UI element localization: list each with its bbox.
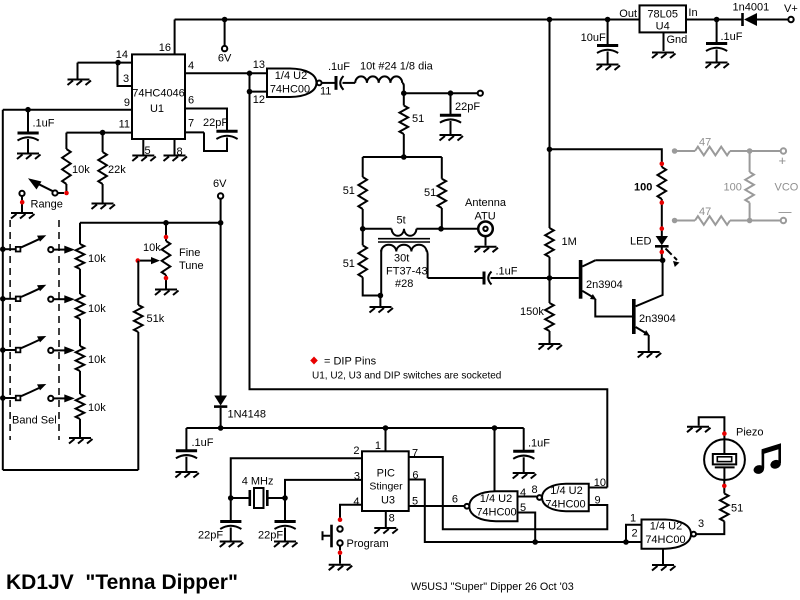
svg-text:10uF: 10uF xyxy=(581,32,606,44)
transformer secondary 30t winding xyxy=(381,245,426,252)
svg-text:74HC4046: 74HC4046 xyxy=(132,88,185,100)
node DIP red 100 bottom xyxy=(660,200,665,205)
capacitor .1uF (regulator input) xyxy=(706,20,743,62)
svg-text:KD1JV "Tenna Dipper": KD1JV "Tenna Dipper" xyxy=(6,571,238,594)
wire diode to V+ terminal xyxy=(757,19,789,21)
wire left loop vertical xyxy=(2,110,4,470)
svg-text:47: 47 xyxy=(699,137,711,149)
svg-text:—: — xyxy=(779,204,792,219)
svg-text:10t #24 1/8 dia: 10t #24 1/8 dia xyxy=(360,61,434,73)
ground ATU xyxy=(475,247,499,253)
switch band row 4 xyxy=(0,384,75,402)
node junction bridge right xyxy=(438,226,444,232)
svg-text:1/4 U2: 1/4 U2 xyxy=(275,70,307,82)
switch Range xyxy=(19,178,64,212)
svg-text:Gnd: Gnd xyxy=(667,34,688,46)
ground reset cap left xyxy=(175,472,199,478)
svg-text:10k: 10k xyxy=(88,354,106,366)
svg-text:74HC00: 74HC00 xyxy=(645,534,685,546)
svg-text:.1uF: .1uF xyxy=(328,61,350,73)
svg-text:Piezo: Piezo xyxy=(736,427,764,439)
svg-text:9: 9 xyxy=(124,97,130,109)
svg-text:51: 51 xyxy=(731,503,743,515)
wire VCO drive horizontal xyxy=(550,149,662,167)
node junction U2b input rail xyxy=(623,539,629,545)
node junction 10uF on rail xyxy=(605,17,611,23)
node DIP pin red (range ground) xyxy=(20,200,25,205)
wire inductor down xyxy=(402,83,404,93)
svg-text:14: 14 xyxy=(116,49,128,61)
ground U1 pin 8 xyxy=(164,156,188,162)
wire U1 pin 9 xyxy=(3,109,132,111)
svg-text:10k: 10k xyxy=(143,242,161,254)
node junction crystal right xyxy=(282,495,288,501)
wire U2a pin 12 xyxy=(250,91,268,93)
node 6V terminal xyxy=(222,46,227,51)
svg-text:FT37-43: FT37-43 xyxy=(386,266,428,278)
node junction VCO branch xyxy=(547,147,553,153)
svg-text:In: In xyxy=(688,7,697,19)
svg-text:= DIP Pins: = DIP Pins xyxy=(324,356,377,368)
resistor ladder 10k 4 xyxy=(76,371,85,437)
ground PIC pin 8 xyxy=(374,528,398,534)
node DIP red LED top xyxy=(660,226,665,231)
wire secondary ground stem xyxy=(379,296,381,307)
diode LED xyxy=(630,236,669,261)
piezo element xyxy=(704,439,745,480)
ground piezo xyxy=(687,427,711,433)
wire U2b output xyxy=(696,521,724,534)
transformer core xyxy=(378,239,430,242)
svg-text:U3: U3 xyxy=(381,495,395,507)
resistor 150k xyxy=(545,278,554,343)
svg-text:10k: 10k xyxy=(88,253,106,265)
svg-text:51: 51 xyxy=(412,113,424,125)
ground range switch xyxy=(11,213,35,219)
node junction secondary/51 xyxy=(378,293,384,299)
node junction LED/collector xyxy=(660,258,666,264)
svg-text:51: 51 xyxy=(343,258,355,270)
svg-text:47: 47 xyxy=(699,206,711,218)
wire PIC pin 7 route xyxy=(409,457,608,529)
svg-text:9: 9 xyxy=(595,495,601,507)
wire U2c spare input drop xyxy=(494,428,496,491)
node DIP red piezo bottom xyxy=(722,484,727,489)
ground U4 xyxy=(652,53,676,59)
wire top V+ rail xyxy=(175,19,640,21)
svg-text:4 MHz: 4 MHz xyxy=(242,476,274,488)
wire fine wiper xyxy=(140,260,152,262)
svg-text:22k: 22k xyxy=(108,164,126,176)
resistor 51 (bottom left) xyxy=(358,229,380,296)
IC U1 74HC4046 xyxy=(132,54,185,139)
svg-text:10k: 10k xyxy=(72,164,90,176)
wire U1 pin 14 xyxy=(78,62,133,64)
resistor 47 (top, external) xyxy=(695,147,730,156)
svg-text:.1uF: .1uF xyxy=(721,31,743,43)
svg-text:2: 2 xyxy=(632,528,638,540)
wire left loop bottom xyxy=(3,469,139,471)
resistor ladder 10k 3 xyxy=(76,319,85,371)
wire PIC pin 6 route (bottom rail) xyxy=(409,480,642,543)
wire pin14 ground stem xyxy=(77,63,79,79)
resistor 51k xyxy=(134,261,143,470)
svg-text:11: 11 xyxy=(119,119,130,131)
wire U1 pin 4 to U2a pin 13 xyxy=(185,72,267,74)
svg-text:Program: Program xyxy=(347,538,389,550)
wire U1 pin 11 xyxy=(66,132,132,134)
svg-text:.1uF: .1uF xyxy=(33,118,55,130)
wire reset rail y428 xyxy=(186,427,523,429)
node junction inductor/51 xyxy=(401,90,407,96)
ground VDD cap xyxy=(513,473,537,479)
capacitor .1uF (osc out) xyxy=(328,61,350,90)
node junction .1uF tap xyxy=(25,107,31,113)
regulator U4 78L05 xyxy=(640,5,687,32)
node junction diode bottom xyxy=(218,425,224,431)
ground 22k xyxy=(92,204,116,210)
wire U1 pin 5 stub xyxy=(142,139,144,155)
svg-text:10k: 10k xyxy=(88,303,106,315)
svg-text:51: 51 xyxy=(424,187,436,199)
wire primary row xyxy=(363,228,478,230)
svg-text:78L05: 78L05 xyxy=(647,9,678,21)
wire U1 pin 8 stub xyxy=(174,139,176,155)
ground .1uF pin9 xyxy=(17,154,41,160)
wire piezo top bracket xyxy=(699,417,725,439)
wire 6V to diode vertical xyxy=(220,223,222,396)
resistor 51 (piezo) xyxy=(720,494,729,522)
wire U4 ground stub xyxy=(663,32,665,51)
svg-text:Antenna: Antenna xyxy=(465,197,507,209)
ground 22pF output xyxy=(440,135,464,141)
capacitor .1uF (detector coupling) xyxy=(428,266,579,285)
resistor ladder 10k 2 xyxy=(76,269,85,319)
wire to 22pF terminal xyxy=(404,92,478,94)
svg-text:6: 6 xyxy=(188,95,194,107)
node gray junction bottom xyxy=(747,218,753,224)
ground pin 14 xyxy=(68,80,92,86)
svg-text:4: 4 xyxy=(188,60,194,72)
legend DIP pins xyxy=(310,356,376,368)
ground U1 pin 5 xyxy=(132,156,156,162)
resistor 22k xyxy=(98,133,107,203)
node junction pin12 xyxy=(247,89,253,95)
ground 10uF xyxy=(597,65,621,71)
ground 150k xyxy=(539,344,563,350)
wire PIC pin 5 to U2c output xyxy=(409,505,465,507)
op U2b NAND xyxy=(642,520,696,549)
node DIP red fine bottom xyxy=(164,276,169,281)
svg-text:PIC: PIC xyxy=(377,468,395,480)
diode 1n4001 xyxy=(733,2,770,27)
resistor 51 (bridge right) xyxy=(438,157,447,229)
resistor 10k (range) xyxy=(62,149,71,184)
svg-text:22pF: 22pF xyxy=(203,117,228,129)
node junction 22k tap xyxy=(100,130,106,136)
svg-text:.1uF: .1uF xyxy=(192,437,214,449)
capacitor .1uF (pin 9) xyxy=(18,110,55,153)
svg-text:2n3904: 2n3904 xyxy=(586,279,623,291)
crystal 4 MHz xyxy=(231,476,285,509)
capacitor 22pF (output) xyxy=(440,93,480,134)
node DIP red piezo top xyxy=(722,431,727,436)
wire PIC pin 4 xyxy=(340,505,362,518)
wire 6V to ladder rail xyxy=(80,222,221,224)
svg-text:7: 7 xyxy=(188,118,194,130)
capacitor .1uF (VDD right) xyxy=(513,428,550,472)
svg-text:16: 16 xyxy=(159,42,171,54)
node junction pin14/pin3 xyxy=(115,60,121,66)
wire 10k top lead xyxy=(65,133,67,149)
ground secondary xyxy=(370,307,394,313)
node DIP pin red (10k bottom) xyxy=(64,191,69,196)
ground U2b xyxy=(652,565,676,571)
node junction 22pF tap xyxy=(448,90,454,96)
svg-text:1n4001: 1n4001 xyxy=(733,2,770,14)
node junction bridge left xyxy=(360,226,366,232)
node DIP red 100 top xyxy=(660,162,665,167)
svg-text:4: 4 xyxy=(353,496,359,508)
svg-text:150k: 150k xyxy=(520,306,544,318)
wire 6V stub xyxy=(224,20,226,46)
wire secondary right lead xyxy=(427,250,428,278)
wire dashed switch gang left xyxy=(9,220,11,440)
svg-text:1/4 U2: 1/4 U2 xyxy=(480,493,512,505)
svg-text:51k: 51k xyxy=(147,313,165,325)
ground ladder xyxy=(69,438,93,444)
wire PIC pin 3 xyxy=(285,480,362,498)
wire pin12 feedback route xyxy=(250,73,608,487)
node VCO - terminal xyxy=(781,218,786,223)
wire U2a output xyxy=(322,82,335,84)
node 6V terminal 2 xyxy=(218,193,223,198)
wire U2b ground stub xyxy=(662,549,664,564)
svg-text:1: 1 xyxy=(630,513,636,525)
transistor Q2 2n3904 xyxy=(632,260,676,351)
svg-text:74HC00: 74HC00 xyxy=(545,499,585,511)
connector ATU jack xyxy=(478,222,493,237)
svg-text:W5USJ "Super" Dipper 26 Oct '0: W5USJ "Super" Dipper 26 Oct '03 xyxy=(411,581,574,593)
svg-text:1N4148: 1N4148 xyxy=(228,409,267,421)
node output terminal xyxy=(478,91,483,96)
svg-text:5t: 5t xyxy=(397,215,406,227)
svg-text:74HC00: 74HC00 xyxy=(270,84,310,96)
node gray junction top xyxy=(747,148,753,154)
svg-text:6V: 6V xyxy=(218,53,232,65)
wire dashed switch gang right xyxy=(58,220,60,440)
svg-text:1/4 U2: 1/4 U2 xyxy=(650,521,682,533)
node DIP red LED bottom xyxy=(660,250,665,255)
node VCO gray terminal top-left xyxy=(672,148,678,154)
svg-text:22pF: 22pF xyxy=(258,530,283,542)
svg-text:+: + xyxy=(779,153,787,168)
resistor 51 (under inductor) xyxy=(400,93,409,157)
ground Q2 emitter xyxy=(638,352,662,358)
svg-text:Tune: Tune xyxy=(179,260,204,272)
diode 1N4148 xyxy=(214,396,266,429)
capacitor 22pF (xtal left) xyxy=(198,498,241,542)
svg-text:6V: 6V xyxy=(213,178,227,190)
wire bridge row y157 xyxy=(363,156,442,158)
wire U1 pin 6 xyxy=(185,109,227,131)
svg-text:8: 8 xyxy=(532,484,538,496)
svg-text:U1, U2, U3 and DIP switches ar: U1, U2, U3 and DIP switches are socketed xyxy=(312,371,501,382)
node DIP red fine top xyxy=(164,235,169,240)
svg-text:22pF: 22pF xyxy=(455,101,480,113)
op U2a NAND 74HC00 xyxy=(267,69,322,98)
ground .1uF regulator xyxy=(706,63,730,69)
svg-text:U4: U4 xyxy=(656,21,670,33)
wire rail right of regulator xyxy=(686,19,743,21)
node junction 6V drop xyxy=(218,220,224,226)
resistor 100 (external) xyxy=(745,151,754,221)
switch band row 3 xyxy=(0,336,75,354)
wire U2b pin1 stub xyxy=(626,525,642,542)
wire 1M vertical from rail xyxy=(549,20,551,229)
wire LED light arrow xyxy=(666,249,680,268)
svg-text:11: 11 xyxy=(320,86,331,98)
svg-text:51: 51 xyxy=(343,185,355,197)
transformer primary 5t winding xyxy=(392,229,417,236)
capacitor 22pF (xtal right) xyxy=(258,498,296,542)
op U2d NAND (mirrored) xyxy=(537,484,589,512)
svg-text:#28: #28 xyxy=(395,278,413,290)
wire U2c pin4 to U2d out xyxy=(518,496,537,498)
wire PIC pin 8 stub xyxy=(385,511,387,527)
wire U1 pin 7 xyxy=(185,132,227,151)
node VCO gray terminal bottom-left xyxy=(672,218,678,224)
inductor 10t #24 1/8 dia xyxy=(355,76,402,82)
node junction fine pot top xyxy=(163,220,169,226)
node VCO + terminal xyxy=(781,148,786,153)
wire U1 pin 16 to rail xyxy=(174,20,176,55)
node junction 51a bottom xyxy=(401,154,407,160)
node junction U2c top xyxy=(492,425,498,431)
resistor 1M xyxy=(545,228,554,278)
transistor Q1 2n3904 xyxy=(579,260,663,317)
wire PIC pin 2 xyxy=(231,458,362,498)
svg-text:V+: V+ xyxy=(784,3,798,15)
svg-text:.1uF: .1uF xyxy=(496,266,518,278)
svg-text:1/4 U2: 1/4 U2 xyxy=(550,485,582,497)
svg-text:Out: Out xyxy=(619,8,637,20)
wire 10k bottom lead xyxy=(65,184,67,193)
node junction crystal left xyxy=(228,495,234,501)
ground fine tune xyxy=(155,290,179,296)
switch band row 1 xyxy=(0,235,75,253)
svg-text:.1uF: .1uF xyxy=(528,438,550,450)
wire gray bottom left xyxy=(675,220,695,222)
wire piezo to 51 xyxy=(723,480,725,494)
wire U2d pin 10 xyxy=(589,487,608,489)
resistor 47 (bottom, external) xyxy=(695,216,730,225)
potentiometer Fine Tune 10k xyxy=(143,223,204,289)
wire ATU ground stem xyxy=(485,236,487,246)
svg-text:100: 100 xyxy=(724,182,742,194)
svg-text:30t: 30t xyxy=(394,253,409,265)
wire gray top left xyxy=(675,150,695,152)
svg-text:3: 3 xyxy=(698,518,704,530)
svg-text:U1: U1 xyxy=(150,103,164,115)
node DIP red wiper xyxy=(136,258,141,263)
resistor 51 (bridge left) xyxy=(358,157,367,229)
svg-text:2n3904: 2n3904 xyxy=(639,313,676,325)
wire secondary left lead xyxy=(380,250,382,296)
node junction .1uF on rail xyxy=(714,17,720,23)
wire U1 pin 3 loop xyxy=(118,63,133,86)
wire 6V terminal stem xyxy=(220,199,222,223)
resistor ladder 10k 1 xyxy=(76,223,85,269)
svg-text:100: 100 xyxy=(634,182,652,194)
ground 22pF xtal right xyxy=(274,542,298,548)
resistor 100 xyxy=(658,167,667,236)
capacitor 22pF (U1 osc) xyxy=(203,117,238,139)
op U2c NAND (mirrored) xyxy=(465,491,518,521)
node V+ terminal xyxy=(788,17,793,22)
svg-text:2: 2 xyxy=(353,445,359,457)
wire cap to inductor xyxy=(343,82,356,84)
svg-text:12: 12 xyxy=(253,94,265,106)
ground 22pF xtal left xyxy=(220,542,244,548)
svg-text:13: 13 xyxy=(253,59,265,71)
node junction pin5 rail xyxy=(532,539,538,545)
IC U3 PIC Stinger xyxy=(362,451,409,511)
icon music notes xyxy=(752,443,782,475)
switch Program pushbutton xyxy=(323,517,389,563)
svg-text:6: 6 xyxy=(452,494,458,506)
node junction pin13 xyxy=(247,71,253,77)
svg-text:22pF: 22pF xyxy=(198,530,223,542)
ground program xyxy=(329,565,353,571)
svg-text:74HC00: 74HC00 xyxy=(476,507,516,519)
wire gray top right xyxy=(730,150,781,152)
svg-text:8: 8 xyxy=(389,513,395,525)
wire PIC pin 1 xyxy=(385,428,387,451)
svg-text:3: 3 xyxy=(354,471,360,483)
node junction 1M branch on rail xyxy=(547,17,553,23)
capacitor 10uF xyxy=(581,20,619,64)
svg-text:Range: Range xyxy=(31,199,63,211)
capacitor .1uF (reset left) xyxy=(176,428,214,471)
node junction base/150k xyxy=(547,275,553,281)
wire U2c pin5 to rail xyxy=(518,513,536,543)
svg-text:1M: 1M xyxy=(562,236,577,248)
svg-text:3: 3 xyxy=(123,73,129,85)
svg-text:1: 1 xyxy=(375,440,381,452)
svg-text:Band Sel: Band Sel xyxy=(12,415,57,427)
switch band row 2 xyxy=(0,285,75,303)
svg-text:10k: 10k xyxy=(88,402,106,414)
svg-text:Fine: Fine xyxy=(179,247,200,259)
svg-text:VCO: VCO xyxy=(775,182,799,194)
wiper arrowhead xyxy=(151,257,160,264)
svg-text:Stinger: Stinger xyxy=(369,481,403,493)
node junction 6V stub on rail xyxy=(222,17,228,23)
node junction PIC pin1 xyxy=(383,425,389,431)
wire gray bottom right xyxy=(730,220,781,222)
svg-text:LED: LED xyxy=(630,236,651,248)
